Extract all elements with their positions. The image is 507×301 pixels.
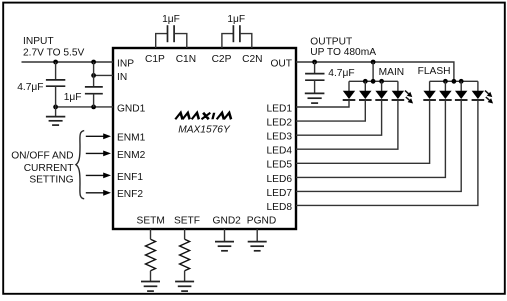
junction GND1 / C-in	[53, 105, 58, 110]
svg-text:C1P: C1P	[145, 54, 165, 65]
LED MAIN2	[359, 91, 372, 100]
wire LED1 cathode return	[296, 100, 349, 107]
wire LED2 cathode return	[296, 100, 365, 121]
svg-text:ENF1: ENF1	[117, 172, 143, 183]
ground PGND	[248, 229, 267, 251]
wire LED4 cathode return	[296, 100, 398, 149]
LED FLASH3	[455, 91, 468, 100]
ground output cap	[305, 93, 325, 103]
svg-text:LED4: LED4	[267, 146, 293, 157]
LED FLASH4 anode stub	[477, 81, 479, 91]
junction MAIN bus feed	[371, 79, 376, 84]
svg-text:SETTING: SETTING	[29, 174, 73, 185]
LED FLASH2	[439, 91, 452, 100]
LED MAIN1 anode stub	[348, 81, 350, 91]
svg-text:IN: IN	[117, 72, 127, 83]
svg-text:4.7μF: 4.7μF	[328, 68, 354, 79]
ground GND2	[215, 229, 234, 251]
ground R-SETF	[175, 282, 194, 292]
svg-text:CURRENT: CURRENT	[24, 163, 74, 174]
node INPUT label	[23, 36, 85, 59]
wire LED3 cathode return	[296, 100, 382, 135]
svg-text:LED3: LED3	[267, 132, 293, 143]
capacitor C1 flying	[156, 25, 187, 48]
svg-text:LED1: LED1	[267, 103, 293, 114]
node ON/OFF AND CURRENT SETTING label	[11, 151, 73, 186]
svg-text:PGND: PGND	[247, 215, 276, 226]
LED FLASH4	[472, 91, 485, 100]
svg-text:MAIN: MAIN	[379, 67, 404, 78]
wire OUT rail	[296, 62, 454, 81]
svg-text:ENM2: ENM2	[117, 150, 146, 161]
junction OUT / C-out	[312, 60, 317, 65]
junction IN tap	[91, 73, 96, 78]
wire FLASH anode bus	[430, 80, 478, 82]
LED MAIN4 anode stub	[397, 81, 399, 91]
svg-text:INPUT: INPUT	[23, 36, 54, 47]
capacitor 4.7uF output	[305, 62, 324, 94]
LED FLASH3 anode stub	[460, 81, 462, 91]
svg-text:OUTPUT: OUTPUT	[310, 36, 352, 47]
LED MAIN2 anode stub	[364, 81, 366, 91]
svg-text:1μF: 1μF	[227, 14, 245, 25]
LED FLASH1 anode stub	[429, 81, 431, 91]
LED MAIN4	[392, 91, 405, 100]
svg-text:1μF: 1μF	[64, 92, 82, 103]
capacitor 1uF bypass	[85, 62, 103, 107]
svg-text:FLASH: FLASH	[418, 66, 451, 77]
wire LED6 cathode return	[296, 100, 445, 177]
wire input rail to INP	[22, 61, 114, 63]
svg-text:LED7: LED7	[267, 188, 293, 199]
svg-text:1μF: 1μF	[162, 14, 180, 25]
svg-text:ENM1: ENM1	[117, 133, 146, 144]
svg-text:LED6: LED6	[267, 174, 293, 185]
LED MAIN4 emission arrows	[405, 91, 413, 104]
junction FLASH bus LED7	[459, 79, 464, 84]
svg-text:C2N: C2N	[242, 54, 262, 65]
junction input rail / C-in	[53, 60, 58, 65]
LED FLASH2 anode stub	[444, 81, 446, 91]
svg-text:C2P: C2P	[212, 54, 232, 65]
svg-text:GND1: GND1	[117, 103, 146, 114]
wire LED8 cathode return	[296, 100, 478, 205]
wire arrow into ENM1	[86, 133, 111, 139]
ground input	[46, 107, 65, 125]
wire IN tap	[94, 74, 113, 76]
wire arrow into ENM2	[86, 151, 111, 157]
junction OUT / MAIN feed	[371, 60, 376, 65]
svg-text:C1N: C1N	[176, 54, 196, 65]
junction GND1 / C-bypass	[91, 105, 96, 110]
svg-text:LED5: LED5	[267, 160, 293, 171]
wire LED5 cathode return	[296, 100, 430, 163]
svg-text:GND2: GND2	[213, 215, 242, 226]
wire MAIN feed	[372, 62, 374, 81]
svg-text:OUT: OUT	[270, 58, 292, 69]
svg-text:LED8: LED8	[267, 202, 293, 213]
svg-text:ENF2: ENF2	[117, 189, 143, 200]
MAXIM logo	[175, 113, 232, 120]
svg-text:4.7μF: 4.7μF	[17, 82, 43, 93]
junction input rail / C-bypass	[91, 60, 96, 65]
LED MAIN3	[375, 91, 388, 100]
IC U1 MAX1576Y body	[113, 48, 296, 229]
resistor R-SETF	[180, 229, 190, 282]
wire GND1 rail	[56, 106, 113, 108]
LED MAIN1	[343, 91, 356, 100]
LED FLASH1	[423, 91, 436, 100]
junction MAIN bus LED3	[379, 79, 384, 84]
svg-text:INP: INP	[117, 58, 134, 69]
ground R-SETM	[141, 282, 160, 292]
capacitor C2 flying	[222, 25, 252, 48]
LED MAIN3 anode stub	[381, 81, 383, 91]
svg-text:SETM: SETM	[137, 215, 165, 226]
resistor R-SETM	[146, 229, 156, 282]
brace grouping enable inputs	[76, 131, 84, 199]
node OUTPUT label	[310, 36, 376, 58]
wire arrow into ENF2	[86, 190, 111, 196]
svg-text:ON/OFF AND: ON/OFF AND	[11, 151, 73, 162]
svg-text:SETF: SETF	[174, 215, 200, 226]
junction FLASH bus LED6	[443, 79, 448, 84]
svg-text:LED2: LED2	[267, 118, 293, 129]
svg-text:MAX1576Y: MAX1576Y	[178, 125, 231, 136]
junction FLASH bus feed	[452, 79, 457, 84]
svg-text:2.7V TO 5.5V: 2.7V TO 5.5V	[23, 47, 85, 58]
wire arrow into ENF1	[86, 173, 111, 179]
wire MAIN anode bus	[349, 80, 398, 82]
capacitor 4.7uF input	[46, 62, 65, 107]
junction MAIN bus LED2	[363, 79, 368, 84]
svg-text:UP TO 480mA: UP TO 480mA	[310, 47, 376, 58]
LED FLASH4 emission arrows	[485, 91, 493, 104]
wire LED7 cathode return	[296, 100, 461, 191]
